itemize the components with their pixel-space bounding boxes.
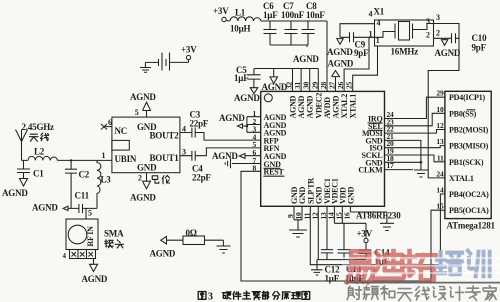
svg-text:X1: X1 — [374, 7, 385, 17]
svg-text:NC: NC — [115, 126, 128, 136]
svg-text:AGND: AGND — [130, 92, 156, 102]
svg-text:L3: L3 — [101, 175, 112, 185]
svg-text:+3V: +3V — [357, 229, 373, 239]
svg-text:PB1(SCK): PB1(SCK) — [449, 158, 484, 167]
svg-text:C2: C2 — [79, 170, 90, 180]
svg-text:REST: REST — [264, 168, 285, 177]
svg-text:9pF: 9pF — [354, 48, 369, 58]
svg-text:14: 14 — [436, 186, 444, 195]
svg-text:29: 29 — [436, 89, 444, 98]
svg-text:AGND: AGND — [293, 54, 319, 64]
svg-text:2: 2 — [436, 29, 440, 38]
svg-text:C11: C11 — [75, 191, 90, 201]
svg-text:12: 12 — [310, 212, 319, 220]
svg-text:1: 1 — [376, 36, 380, 45]
svg-text:PD4(ICP1): PD4(ICP1) — [449, 93, 486, 102]
svg-text:AGND: AGND — [328, 59, 354, 69]
svg-text:1: 1 — [102, 151, 106, 160]
svg-text:5: 5 — [135, 108, 139, 117]
svg-text:4: 4 — [369, 10, 373, 19]
svg-text:1μF: 1μF — [325, 274, 340, 284]
svg-text:AGND: AGND — [435, 48, 461, 58]
svg-text:1μF: 1μF — [263, 10, 278, 20]
svg-text:SMA: SMA — [104, 229, 124, 239]
svg-text:AGND: AGND — [130, 193, 156, 203]
svg-text:UBIN: UBIN — [115, 154, 137, 164]
svg-text:AT86RF230: AT86RF230 — [356, 211, 401, 221]
svg-text:2: 2 — [426, 31, 430, 40]
svg-text:AGND: AGND — [212, 151, 238, 161]
svg-text:9pF: 9pF — [472, 43, 487, 53]
svg-text:1μF: 1μF — [234, 73, 249, 83]
svg-text:AGND: AGND — [82, 274, 108, 284]
svg-text:XTAL1: XTAL1 — [349, 94, 358, 119]
svg-text:AGND: AGND — [327, 47, 353, 57]
svg-text:25: 25 — [345, 81, 354, 89]
svg-text:C10: C10 — [472, 33, 488, 43]
svg-text:0Ω: 0Ω — [186, 228, 197, 238]
svg-text:BOUT1: BOUT1 — [150, 153, 180, 163]
svg-text:2: 2 — [138, 174, 142, 183]
svg-text:4: 4 — [63, 252, 67, 260]
svg-text:PB4(OC2A): PB4(OC2A) — [449, 190, 489, 199]
svg-text:100nF: 100nF — [281, 10, 305, 20]
svg-text:L1: L1 — [235, 8, 246, 18]
svg-text:2.45GHz: 2.45GHz — [22, 122, 55, 132]
svg-text:11: 11 — [437, 153, 444, 162]
svg-text:10nF: 10nF — [306, 10, 325, 20]
svg-text:+3V: +3V — [181, 45, 197, 55]
svg-text:22pF: 22pF — [190, 119, 209, 129]
svg-text:GND: GND — [346, 186, 355, 204]
svg-text:AGND: AGND — [2, 188, 28, 198]
svg-text:13: 13 — [436, 137, 444, 146]
svg-text:4: 4 — [377, 19, 381, 28]
svg-text:3: 3 — [182, 148, 186, 157]
svg-text:5: 5 — [88, 209, 92, 218]
svg-text:AGND: AGND — [219, 113, 245, 123]
svg-text:6: 6 — [108, 118, 112, 127]
svg-text:10μH: 10μH — [230, 24, 251, 34]
svg-text:12: 12 — [436, 121, 444, 130]
svg-text:XTAL1: XTAL1 — [449, 174, 474, 183]
svg-text:GND: GND — [314, 186, 323, 204]
svg-text:3: 3 — [436, 13, 440, 22]
svg-text:PB0(SS): PB0(SS) — [449, 109, 477, 118]
svg-text:AGND: AGND — [32, 203, 58, 213]
svg-text:C1: C1 — [33, 169, 44, 179]
svg-text:22pF: 22pF — [192, 173, 211, 183]
svg-text:15: 15 — [436, 202, 444, 211]
svg-text:AGND: AGND — [150, 249, 176, 259]
svg-text:RF IN: RF IN — [86, 226, 95, 247]
svg-text:PB2(MOSI): PB2(MOSI) — [449, 126, 489, 135]
svg-text:PB3(MISO): PB3(MISO) — [449, 142, 489, 151]
svg-text:ATmega1281: ATmega1281 — [447, 221, 496, 231]
svg-text:4: 4 — [182, 125, 186, 134]
svg-text:3: 3 — [426, 17, 430, 26]
svg-text:AGND: AGND — [234, 93, 260, 103]
svg-text:3: 3 — [208, 292, 213, 302]
svg-text:L2: L2 — [34, 147, 45, 157]
svg-text:8: 8 — [253, 164, 257, 173]
svg-text:BOUT2: BOUT2 — [150, 131, 180, 141]
svg-text:PB5(OC1A): PB5(OC1A) — [449, 206, 489, 215]
svg-text:24: 24 — [436, 169, 444, 178]
svg-text:GND: GND — [137, 163, 157, 173]
svg-text:+3V: +3V — [213, 6, 229, 16]
svg-text:16MHz: 16MHz — [391, 47, 419, 57]
svg-text:16: 16 — [342, 212, 351, 220]
svg-text:10: 10 — [436, 105, 444, 114]
svg-text:CLKM: CLKM — [358, 166, 383, 175]
